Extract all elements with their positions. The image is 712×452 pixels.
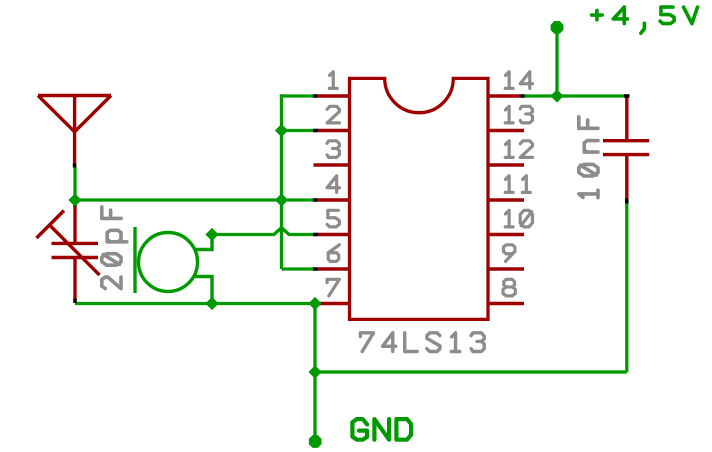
junction pin 2 [275,124,288,137]
junction pin 7 [308,297,321,310]
wire bottom net [75,302,314,305]
microphone M1 [135,227,212,304]
pin 9 [488,267,524,270]
wire gnd to cap bottom [315,370,627,373]
wire supply vertical [555,27,558,96]
supply node dot [551,21,564,34]
pin 8 [488,302,524,305]
cap pin tick top [624,94,630,98]
wire net top antenna to pin 4 [75,198,314,201]
trimmer pin tick top [73,202,77,207]
pin 13 [488,129,524,132]
wire cap bottom vertical [625,202,628,372]
wire pin 1 [280,94,314,97]
wire pin 2 [282,129,314,132]
wire left bus vertical [280,94,283,269]
capacitor C2 10nF [603,96,649,199]
ground node dot [309,435,322,448]
pin 12 [488,163,524,166]
pin 5 [318,233,350,236]
wire antenna to junction [73,168,76,201]
antenna ANT1 [38,96,111,164]
pin 14 [488,94,521,97]
pin 2 [318,129,350,132]
junction mic bottom [205,297,218,310]
junction gnd branch [308,365,321,378]
label +4,5V [592,7,698,33]
junction antenna/trimmer/net [68,193,81,206]
label 20pF [102,207,127,289]
cap pin tick bottom [625,199,629,204]
pin 1 [318,94,350,97]
junction pin 14 supply [550,89,563,102]
label GND [352,419,411,440]
wire pin 5 with hop [212,228,314,235]
junction mic top [205,228,218,241]
wire pin 6 [282,267,314,270]
pin 10 [488,233,524,236]
pin 11 [488,198,524,201]
label 10nF [579,117,598,198]
trimmer capacitor C1 [37,207,100,299]
junction pin 4 [275,193,288,206]
wire pin 14 to cap top [525,94,625,97]
label 74LS13 [360,333,484,352]
trimmer pin tick bottom [73,299,77,304]
wire gnd drop [313,304,316,442]
pin 3 [314,163,350,166]
pin 4 [318,198,350,201]
pin 6 [318,267,350,270]
antenna pin tick [73,164,77,168]
pin 7 [318,302,350,305]
op-amp U1 74LS13 body [350,78,489,319]
